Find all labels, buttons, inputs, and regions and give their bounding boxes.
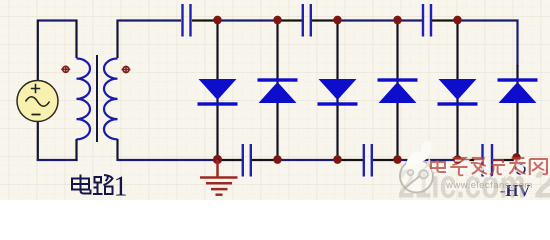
polarity dot secondary <box>122 66 131 73</box>
wire bottom of primary loop <box>37 159 78 161</box>
wire top rail segment <box>218 19 279 21</box>
ground <box>200 160 238 195</box>
wire top rail right segment with corner <box>458 21 518 67</box>
AC source V1 <box>17 81 58 122</box>
watermark white emboss text copies <box>433 161 549 178</box>
wire vertical branch 4 <box>396 21 398 161</box>
wire top of primary loop <box>38 19 77 21</box>
wire top rail segment <box>398 19 423 21</box>
junction dot top node 1 <box>213 16 221 25</box>
wire bottom rail pin segment <box>218 159 243 161</box>
primary winding <box>77 59 91 140</box>
wire vertical branch 1 <box>216 21 218 161</box>
diode D5 <box>438 79 478 106</box>
junction dot bottom node 5 <box>453 155 461 164</box>
polarity dot primary <box>61 66 70 73</box>
wire bottom rail pin segment <box>458 159 484 161</box>
wire bottom rail segment <box>398 159 459 161</box>
svg-text:www.elecfans.com: www.elecfans.com <box>445 180 533 191</box>
junction dot ground node <box>213 155 222 164</box>
wire primary stem bottom <box>75 139 77 161</box>
capacitor C5 <box>364 144 372 177</box>
wire bottom rail left <box>117 159 218 161</box>
wire top rail <box>117 19 181 21</box>
wire top rail pin segment <box>312 19 338 21</box>
watermark 21ic.com big gray text <box>398 163 550 207</box>
wire top rail pin segment <box>192 19 218 21</box>
wire primary stem top <box>75 20 77 59</box>
wire bottom rail right segment <box>493 159 518 161</box>
wire secondary stem bottom <box>116 139 118 161</box>
diode D3 <box>318 79 358 106</box>
wire left vertical from top to AC source <box>37 20 39 81</box>
wire bottom rail pin segment <box>338 159 364 161</box>
port -HV terminal circle <box>516 165 525 174</box>
wire AC source bottom to bottom rail <box>37 122 39 161</box>
wire vertical branch 6 <box>516 65 518 160</box>
junction dot bottom node 2 <box>273 155 281 164</box>
junction dot top node 4 <box>393 16 401 25</box>
label 电路1 <box>72 175 113 195</box>
diode D2 <box>258 78 298 103</box>
wire top rail pin segment <box>432 19 458 21</box>
wire vertical branch 3 <box>336 21 338 161</box>
wire secondary stem top <box>116 20 118 59</box>
wire top rail segment <box>278 19 303 21</box>
junction dot top node 5 <box>453 16 461 25</box>
diode D4 <box>378 78 418 103</box>
transformer T1 <box>61 20 130 162</box>
glyph dian <box>81 175 91 194</box>
capacitor C3 <box>423 4 431 37</box>
wire vertical branch 2 <box>276 21 278 161</box>
junction dot output node <box>512 153 520 162</box>
junction dot top node 3 <box>333 16 341 25</box>
diode D1 <box>198 79 238 106</box>
capacitor C2 <box>303 4 311 37</box>
wire top rail segment <box>338 19 399 21</box>
wire bottom rail pin segment <box>373 159 398 161</box>
core <box>96 55 98 142</box>
capacitor C6 <box>483 144 493 177</box>
svg-text:1: 1 <box>114 171 128 200</box>
watermark 21ic circle logo <box>400 141 433 192</box>
secondary winding <box>104 59 117 140</box>
watermark red text elecfans <box>431 158 547 175</box>
capacitor C4 <box>243 144 251 177</box>
diode D6 <box>498 78 538 103</box>
capacitor C1 <box>183 4 191 37</box>
wire bottom rail segment <box>278 159 339 161</box>
glyph lu <box>95 177 102 183</box>
junction dot bottom node 3 <box>333 155 341 164</box>
wire vertical branch 5 <box>456 21 458 161</box>
junction dot bottom node 4 <box>393 155 401 164</box>
junction dot top node 2 <box>273 16 281 25</box>
wire bottom rail pin segment <box>252 159 278 161</box>
